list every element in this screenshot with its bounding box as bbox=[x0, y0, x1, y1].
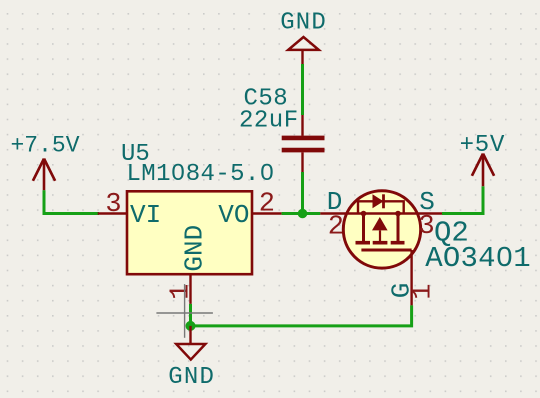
value LM1084-5.0 bbox=[127, 161, 275, 188]
wire G to ground net bbox=[191, 305, 412, 326]
svg-text:3: 3 bbox=[105, 190, 121, 220]
wire U5 pin1 to ground node bbox=[189, 304, 192, 326]
power symbol GND (bottom) bbox=[168, 326, 215, 391]
svg-text:GND: GND bbox=[280, 10, 327, 37]
transistor Q2 body bbox=[320, 191, 442, 268]
capacitor C58 bbox=[282, 115, 325, 172]
power symbol GND (top) bbox=[280, 10, 327, 64]
pin 2 of U5 bbox=[252, 190, 282, 220]
svg-text:1: 1 bbox=[166, 284, 196, 300]
power symbol +5V bbox=[460, 132, 506, 186]
junction ground node bbox=[186, 321, 196, 331]
svg-text:VO: VO bbox=[218, 200, 249, 230]
svg-text:AO3401: AO3401 bbox=[425, 242, 531, 275]
svg-text:2: 2 bbox=[259, 190, 275, 220]
pin 2 (D) of Q2 bbox=[327, 187, 344, 242]
svg-text:VI: VI bbox=[130, 200, 161, 230]
svg-text:2: 2 bbox=[328, 212, 344, 242]
svg-text:GND: GND bbox=[179, 225, 209, 272]
value AO3401 bbox=[425, 242, 531, 275]
wire S to +5V bbox=[442, 186, 483, 213]
pin 3 of U5 bbox=[98, 190, 127, 220]
svg-text:LM1084-5.0: LM1084-5.0 bbox=[127, 161, 275, 188]
pin 3 (S) of Q2 bbox=[418, 187, 434, 242]
svg-text:GND: GND bbox=[168, 364, 215, 391]
pin 1 of U5 bbox=[166, 274, 196, 304]
anchor crosshair bbox=[156, 284, 213, 338]
svg-text:3: 3 bbox=[418, 212, 434, 242]
wire +7.5V to VI bbox=[44, 190, 99, 213]
junction node VO/C58/D bbox=[298, 209, 308, 219]
svg-text:22uF: 22uF bbox=[239, 108, 299, 135]
power symbol +7.5V bbox=[11, 133, 80, 191]
wire C58 to node bbox=[301, 172, 304, 214]
svg-text:1: 1 bbox=[409, 283, 439, 299]
regulator U5 body bbox=[127, 191, 252, 274]
wire GND-top to C58 bbox=[301, 64, 304, 115]
svg-text:+7.5V: +7.5V bbox=[11, 133, 80, 159]
wire VO to node bbox=[282, 212, 321, 215]
pin 1 (G) of Q2 bbox=[387, 250, 439, 305]
